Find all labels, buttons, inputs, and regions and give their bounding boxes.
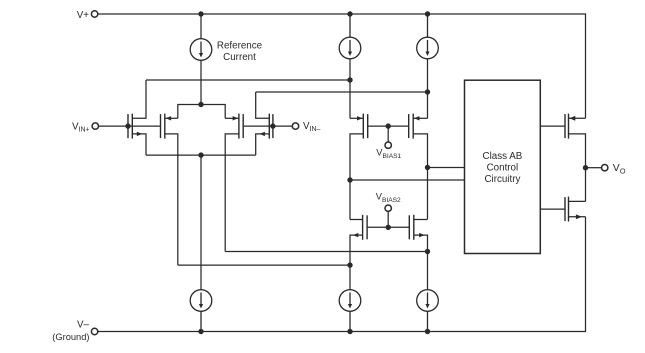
transistor Q4 input NMOS (VIN-) mirrored [256, 92, 273, 155]
wire Q3 drain to x427.5 bottom [225, 251, 427, 253]
wire V- rail [98, 217, 586, 332]
svg-text:VBIAS1: VBIAS1 [376, 147, 401, 160]
VBIAS2 terminal [385, 205, 391, 211]
wire PMOS pair tail (Q2,Q3 sources) [178, 105, 225, 119]
svg-text:Class AB: Class AB [483, 151, 523, 162]
node top rail x350 [347, 11, 352, 16]
transistor M7 output PMOS [565, 114, 586, 202]
node VBIAS2 gate [386, 225, 391, 230]
wire NMOS pair tail (Q1,Q4 sources) [146, 154, 256, 156]
wire Q2 drain to x350 bottom [178, 264, 350, 266]
node top rail x201 [198, 11, 203, 16]
V+ terminal [91, 11, 97, 17]
wire M3-M4 common gate [368, 125, 409, 127]
V- terminal [91, 328, 97, 334]
wire tail to bottom current source I4 [200, 155, 202, 290]
node Q1 drain join x350 [347, 77, 352, 82]
node M4 drain y167.5 [425, 165, 430, 170]
transistor M5 cascode NMOS left (VBIAS2) mirrored [350, 215, 367, 290]
wire reference current source to rail [200, 14, 202, 39]
current source I-REF (reference current) [190, 39, 212, 61]
transistor M8 output NMOS [565, 197, 586, 222]
svg-text:(Ground): (Ground) [52, 332, 89, 342]
wire VO [586, 167, 602, 169]
wire I2 to M3 source [349, 59, 351, 119]
transistor M3 cascode PMOS left (VBIAS1) mirrored [350, 114, 368, 220]
node M3 drain y180 [347, 177, 352, 182]
svg-text:VIN–: VIN– [303, 121, 321, 133]
node top rail x427.5 [425, 11, 430, 16]
node x350 y265 [347, 262, 352, 267]
wire VBIAS2 stub [387, 211, 389, 227]
wire VBIAS1 stub [387, 126, 389, 142]
transistor M6 cascode NMOS right (VBIAS2) [409, 215, 427, 290]
svg-text:V–: V– [77, 319, 90, 330]
node Q4 gate [270, 123, 275, 128]
transistor M4 cascode PMOS right (VBIAS1) [409, 114, 428, 220]
node Q4 drain join x427.5 [425, 89, 430, 94]
svg-text:Current: Current [223, 52, 256, 63]
wire box to output PMOS gate [540, 125, 565, 127]
wire VIN+ to Q1,Q2 gates [98, 125, 160, 127]
node bottom rail x201 [198, 329, 203, 334]
svg-text:Reference: Reference [217, 41, 263, 52]
wire M5-M6 common gate [367, 226, 409, 228]
svg-text:Control: Control [487, 162, 519, 173]
wire M4 drain to class AB box [428, 167, 465, 169]
wire Q1 drain to x350 column [146, 79, 350, 81]
transistor Q2 input PMOS (VIN+) [161, 114, 178, 266]
wire I3 to M4 source [427, 59, 429, 119]
wire Q3 gate to VIN- terminal [243, 125, 292, 127]
node VBIAS1 gate [386, 123, 391, 128]
node bottom rail x427.5 [425, 329, 430, 334]
current source I4 bottom (tail) [190, 290, 212, 332]
wire box to output NMOS gate [540, 208, 565, 210]
transistor Q3 input PMOS (VIN-) mirrored [225, 114, 243, 252]
node PMOS pair tail [198, 102, 203, 107]
node VO [583, 165, 588, 170]
wire M3 drain to class AB box [350, 179, 465, 181]
VIN- terminal [292, 123, 298, 129]
class AB control circuitry box [465, 80, 541, 253]
svg-text:V+: V+ [77, 10, 90, 21]
current source I2 top [339, 14, 361, 59]
svg-text:VIN+: VIN+ [72, 121, 90, 133]
VO terminal [602, 165, 608, 171]
transistor Q1 input NMOS (VIN+) [128, 80, 146, 155]
wire Q4 drain to x427.5 column [256, 91, 428, 93]
current source I3 top [417, 14, 439, 59]
svg-text:Circuitry: Circuitry [484, 174, 520, 185]
VBIAS1 terminal [385, 142, 391, 148]
current source I5 bottom [339, 290, 361, 332]
wire V+ rail [98, 14, 586, 118]
wire reference current to input tail node [200, 60, 202, 104]
current source I6 bottom [417, 290, 439, 332]
node bottom rail x350 [347, 329, 352, 334]
node x427.5 y251.5 [425, 249, 430, 254]
svg-text:VO: VO [613, 163, 626, 175]
node Q1 gate [125, 123, 130, 128]
node NMOS pair tail [198, 152, 203, 157]
VIN+ terminal [92, 123, 98, 129]
svg-text:VBIAS2: VBIAS2 [376, 191, 401, 204]
